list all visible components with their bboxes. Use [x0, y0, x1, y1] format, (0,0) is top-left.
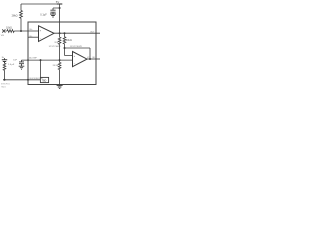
svg-text:+: + — [74, 55, 76, 58]
node feedback tee — [64, 47, 66, 49]
capacitor C1 0.1uF — [50, 10, 55, 12]
resistor R6 divider lower — [58, 60, 61, 86]
svg-text:3785 F01: 3785 F01 — [1, 84, 10, 86]
resistor R3 10k feedback — [63, 33, 66, 48]
wire op1 output bus — [54, 32, 100, 34]
ground (bypass cap) — [50, 14, 56, 17]
node input/pullup junction — [20, 30, 22, 32]
svg-text:−: − — [74, 62, 76, 65]
resistor R4 divider upper — [58, 33, 61, 60]
node supply joins output — [59, 32, 61, 34]
svg-text:VIN: VIN — [1, 35, 5, 37]
svg-text:10kΩ: 10kΩ — [6, 26, 12, 29]
resistor R1 10k input — [5, 30, 38, 33]
capacitor C3 left leg — [2, 58, 7, 63]
wire bypass tap — [53, 8, 60, 14]
wire op1 inverting input — [28, 36, 39, 38]
node mode tap — [40, 59, 42, 61]
svg-text:1.4 µF: 1.4 µF — [8, 64, 15, 66]
svg-text:OUT: OUT — [90, 31, 95, 33]
svg-text:0.1µF: 0.1µF — [40, 14, 47, 17]
wire to op2 noninverting input — [65, 48, 73, 56]
wire bottom bus — [3, 79, 40, 81]
svg-text:TA01: TA01 — [1, 85, 7, 88]
resistor R2 28k pullup — [20, 4, 23, 31]
wire ACOMP bus — [22, 59, 73, 61]
svg-text:SD: SD — [92, 57, 95, 59]
wire supply vertical — [59, 4, 61, 33]
resistor R5 left leg — [3, 63, 6, 80]
capacitor C2 compensation — [19, 60, 24, 66]
op-amp U1A — [39, 26, 55, 42]
svg-text:28kΩ: 28kΩ — [12, 15, 18, 18]
op-amp U1B — [73, 52, 88, 67]
svg-text:TBD: TBD — [42, 80, 47, 82]
chip box U1 — [28, 22, 96, 85]
wire top rail 5V to 28k — [21, 3, 60, 5]
input terminal X — [2, 29, 5, 32]
node divider mid — [59, 59, 61, 61]
svg-text:+: + — [40, 29, 42, 32]
power flag 5V bar — [57, 3, 62, 5]
wire mode leg — [40, 60, 42, 77]
node box edge bottom — [27, 79, 29, 81]
ground (comp cap) — [19, 66, 25, 69]
svg-text:1/2 LTC6078: 1/2 LTC6078 — [70, 46, 83, 48]
svg-text:24.9k: 24.9k — [53, 65, 59, 67]
wire op2 output — [87, 58, 100, 60]
ground (divider) — [57, 86, 63, 89]
wire feedback to op2 output — [65, 48, 91, 59]
svg-text:ACOMP: ACOMP — [29, 57, 37, 60]
node box edge — [27, 59, 29, 61]
node supply/bypass junction — [59, 7, 61, 9]
node left leg join — [4, 79, 6, 81]
node feedback join — [89, 58, 91, 60]
component box mode — [40, 77, 48, 82]
svg-text:1nF: 1nF — [13, 60, 17, 62]
svg-text:5V: 5V — [56, 0, 60, 4]
node R3 tap — [64, 32, 66, 34]
svg-text:10kΩ: 10kΩ — [66, 39, 72, 42]
